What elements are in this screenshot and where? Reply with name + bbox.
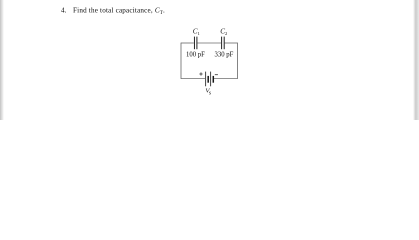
- wire: bottom-left segment: [181, 78, 205, 80]
- wire: top-left segment: [181, 42, 194, 44]
- polarity +: [199, 72, 202, 75]
- wire: top-right segment: [225, 42, 238, 44]
- capacitor C1: [194, 37, 196, 50]
- capacitor C2: [222, 37, 225, 50]
- svg-text:330 pF: 330 pF: [215, 50, 234, 59]
- svg-text:100 pF: 100 pF: [186, 50, 205, 59]
- battery VS: [206, 72, 214, 87]
- battery short plate 2: [212, 76, 214, 83]
- wire: bottom-right segment: [214, 78, 238, 80]
- svg-text:S: S: [209, 90, 212, 95]
- wire: top-middle segment between C1 and C2: [197, 42, 221, 44]
- wire: left side: [180, 43, 182, 79]
- svg-text:Find the total capacitance, CT: Find the total capacitance, CT.: [73, 7, 165, 17]
- svg-text:1: 1: [198, 31, 200, 36]
- polarity -: [215, 74, 218, 76]
- svg-text:2: 2: [225, 31, 227, 36]
- battery long plate 1: [205, 72, 207, 87]
- battery long plate 2: [210, 72, 212, 87]
- wire: right side: [237, 43, 239, 79]
- battery short plate 1: [207, 76, 209, 83]
- svg-text:4.: 4.: [61, 7, 67, 15]
